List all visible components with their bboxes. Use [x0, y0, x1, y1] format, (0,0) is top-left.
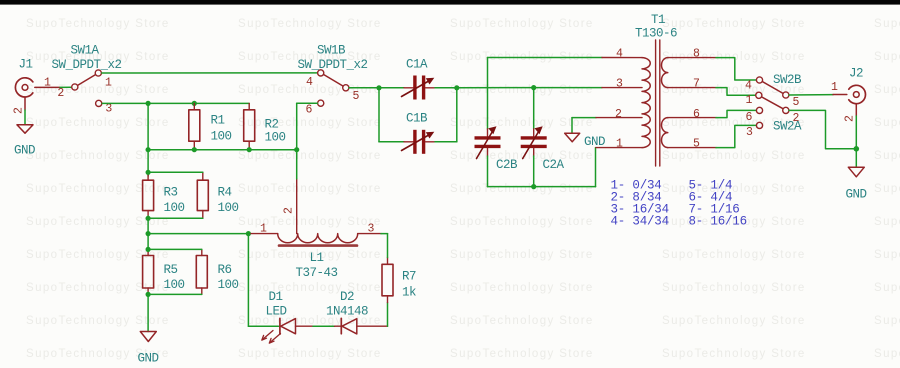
resistor R4: [197, 172, 238, 218]
node junction wireC-D branch: [246, 231, 251, 236]
capacitor C2B: [475, 126, 519, 172]
svg-text:100: 100: [164, 278, 185, 292]
T1 pin 6: [668, 108, 716, 121]
wire C2B vertical top: [487, 58, 489, 130]
svg-text:2: 2: [13, 107, 26, 114]
wire C: vertical to L1 pin1: [148, 233, 248, 235]
wire to D1 anode: [248, 325, 278, 327]
node junction wireB-R1: [192, 147, 197, 152]
svg-text:SupoTechnology Store: SupoTechnology Store: [662, 183, 806, 195]
svg-text:GND: GND: [584, 135, 605, 149]
node junction wireB-R2: [247, 147, 252, 152]
wire SW2A pin2 to ground rail: [789, 110, 856, 148]
svg-text:5: 5: [793, 96, 800, 109]
capacitor C1B: [379, 112, 435, 154]
svg-text:1N4148: 1N4148: [326, 305, 368, 319]
wire C1A to node right: [435, 87, 457, 89]
svg-text:1: 1: [260, 222, 267, 235]
svg-text:J2: J2: [849, 67, 863, 81]
svg-text:R6: R6: [218, 263, 232, 277]
svg-text:SupoTechnology Store: SupoTechnology Store: [450, 183, 594, 195]
ground GND middle: [565, 133, 605, 149]
svg-text:GND: GND: [138, 352, 159, 366]
svg-text:1: 1: [746, 94, 753, 107]
connector J1: [15, 58, 32, 98]
svg-text:T1: T1: [651, 13, 665, 27]
svg-text:SupoTechnology Store: SupoTechnology Store: [238, 150, 382, 162]
wire SW2B pin5 to J2: [789, 94, 833, 96]
svg-text:SupoTechnology Store: SupoTechnology Store: [238, 282, 382, 294]
svg-text:SupoTechnology Store: SupoTechnology Store: [450, 18, 594, 30]
wire left vertical lower to ground: [147, 293, 149, 332]
svg-text:SupoTechnology Store: SupoTechnology Store: [874, 18, 900, 30]
svg-text:1k: 1k: [402, 286, 416, 300]
wire SW1A pin1 to SW1B pin4: [102, 72, 317, 74]
wire C2A vertical bottom: [533, 156, 535, 187]
wire T1 pin8 to SW2B pin4: [716, 58, 756, 80]
node junction J2 ground: [854, 146, 860, 152]
svg-text:SupoTechnology Store: SupoTechnology Store: [450, 348, 594, 360]
wire left vertical middle: [147, 216, 149, 252]
svg-text:SW1A: SW1A: [71, 44, 100, 58]
top black bar: [0, 0, 900, 5]
svg-text:2: 2: [844, 115, 857, 122]
node junction wireB-L1 branch: [294, 147, 299, 152]
T1 pin 8: [668, 48, 716, 61]
node junction C1 right: [454, 85, 459, 90]
inductor L1: [251, 179, 381, 280]
svg-text:J1: J1: [19, 58, 33, 72]
node junction R3R4 top: [146, 170, 151, 175]
wire C1B left vertical: [378, 88, 380, 142]
switch SW2A: [756, 92, 802, 133]
wire A: SW1A pin3 to R1 R2 tops: [102, 102, 249, 104]
J2 pin 2: [844, 104, 857, 122]
wire C2B vertical bottom: [487, 156, 489, 187]
svg-text:4- 34/34: 4- 34/34: [611, 215, 669, 229]
node junction wireA-vertical: [146, 101, 151, 106]
svg-text:L1: L1: [310, 251, 324, 265]
wire J1 to SW1A: [60, 86, 71, 88]
wire C1 node to T1 pin3: [457, 87, 602, 89]
wire SW1B pin5 to C1: [349, 87, 379, 89]
wire bottom rail: [488, 148, 596, 187]
resistor R1: [189, 103, 232, 149]
svg-text:SupoTechnology Store: SupoTechnology Store: [238, 18, 382, 30]
svg-text:7: 7: [693, 78, 699, 91]
wire left vertical upper: [147, 103, 149, 176]
wire D branch vertical: [247, 234, 249, 327]
svg-text:1: 1: [44, 76, 51, 89]
svg-text:8- 16/16: 8- 16/16: [689, 215, 747, 229]
wire SW1B pin6 stub: [297, 103, 318, 150]
transformer T1: [635, 13, 677, 166]
svg-text:SupoTechnology Store: SupoTechnology Store: [874, 348, 900, 360]
svg-text:SupoTechnology Store: SupoTechnology Store: [450, 282, 594, 294]
wire J1 pin2 to ground: [24, 110, 26, 125]
svg-text:3: 3: [616, 78, 623, 91]
svg-text:R2: R2: [265, 118, 279, 132]
svg-text:SupoTechnology Store: SupoTechnology Store: [450, 84, 594, 96]
svg-text:C1B: C1B: [406, 112, 428, 126]
svg-text:R5: R5: [164, 263, 178, 277]
wire D1 to D2: [296, 325, 342, 327]
svg-text:R4: R4: [218, 186, 232, 200]
wire SW1B pin6 vertical to L1 pin2: [296, 150, 298, 179]
node junction C2A top: [531, 85, 536, 90]
wire R3 R4 bottoms: [148, 217, 203, 219]
svg-text:SupoTechnology Store: SupoTechnology Store: [662, 18, 806, 30]
node junction wireC-vertical: [146, 231, 151, 236]
svg-text:SupoTechnology Store: SupoTechnology Store: [662, 150, 806, 162]
resistor R6: [196, 249, 238, 294]
wire R5 R6 bottoms: [148, 293, 202, 295]
wire L1 pin3 to R7 top: [381, 234, 388, 258]
resistor R2: [244, 103, 286, 149]
svg-text:100: 100: [164, 201, 185, 215]
svg-text:SupoTechnology Store: SupoTechnology Store: [26, 183, 170, 195]
svg-text:SupoTechnology Store: SupoTechnology Store: [450, 150, 594, 162]
ground GND left: [138, 332, 159, 366]
connector J2: [849, 67, 866, 104]
node junction R3R4 bottom: [146, 216, 151, 221]
svg-text:R1: R1: [211, 114, 225, 128]
J2 pin 1: [831, 81, 847, 95]
svg-text:SupoTechnology Store: SupoTechnology Store: [874, 51, 900, 63]
T1 pin 3: [602, 78, 642, 91]
svg-text:5: 5: [353, 90, 360, 103]
T1 pin 7: [668, 78, 716, 91]
svg-text:1: 1: [831, 81, 838, 94]
node junction R5R6 top: [146, 247, 151, 252]
svg-text:4: 4: [616, 48, 623, 61]
svg-text:R3: R3: [164, 186, 178, 200]
wire T1 pin5 to SW2A pin3: [716, 125, 756, 147]
svg-text:SupoTechnology Store: SupoTechnology Store: [874, 249, 900, 261]
svg-text:3: 3: [368, 222, 375, 235]
note winding table: [611, 179, 747, 229]
J1 pin 1: [35, 76, 60, 89]
svg-text:SupoTechnology Store: SupoTechnology Store: [662, 315, 806, 327]
svg-text:SupoTechnology Store: SupoTechnology Store: [874, 84, 900, 96]
svg-text:1: 1: [616, 138, 623, 151]
svg-text:SupoTechnology Store: SupoTechnology Store: [874, 150, 900, 162]
ground GND at J2: [846, 167, 867, 201]
svg-text:2: 2: [615, 108, 622, 121]
svg-text:SupoTechnology Store: SupoTechnology Store: [450, 216, 594, 228]
capacitor C2A: [521, 126, 565, 172]
svg-text:100: 100: [265, 131, 286, 145]
svg-text:SupoTechnology Store: SupoTechnology Store: [662, 249, 806, 261]
switch SW1A: [52, 44, 122, 107]
wire R7 bottom vertical: [387, 303, 389, 327]
svg-text:LED: LED: [266, 305, 287, 319]
svg-text:SupoTechnology Store: SupoTechnology Store: [874, 216, 900, 228]
svg-text:100: 100: [218, 201, 239, 215]
svg-text:SW_DPDT_x2: SW_DPDT_x2: [298, 58, 368, 72]
svg-text:6: 6: [746, 111, 753, 124]
svg-text:C2B: C2B: [496, 158, 518, 172]
svg-text:SW1B: SW1B: [317, 44, 346, 58]
resistor R3: [143, 174, 185, 218]
switch SW1B: [298, 44, 368, 107]
svg-text:R7: R7: [402, 270, 416, 284]
capacitor C1A: [379, 57, 435, 99]
node junction C1 left: [376, 85, 381, 90]
J1 pin 2: [13, 97, 26, 114]
T1 pin 1: [596, 138, 642, 151]
resistor R7: [382, 258, 416, 303]
svg-text:2: 2: [57, 87, 64, 100]
svg-text:8: 8: [693, 48, 700, 61]
svg-text:3: 3: [105, 103, 112, 116]
svg-text:SupoTechnology Store: SupoTechnology Store: [238, 348, 382, 360]
wire J2 pin2 down: [855, 116, 857, 149]
diode D2 1N4148: [326, 290, 368, 334]
wire to GND J2: [855, 149, 857, 167]
wire C1B right vertical: [435, 88, 457, 142]
wire R3 R4 tops: [148, 171, 203, 173]
svg-text:SupoTechnology Store: SupoTechnology Store: [874, 183, 900, 195]
svg-text:C2A: C2A: [543, 158, 565, 172]
svg-text:SupoTechnology Store: SupoTechnology Store: [662, 348, 806, 360]
svg-text:GND: GND: [14, 144, 35, 158]
svg-text:SupoTechnology Store: SupoTechnology Store: [450, 249, 594, 261]
svg-text:D2: D2: [340, 290, 354, 304]
wire T1 pin6 to SW2B pin6: [716, 110, 756, 117]
switch SW2B: [756, 73, 802, 114]
svg-text:1: 1: [105, 77, 112, 90]
svg-text:5: 5: [693, 138, 700, 151]
diode D1 LED: [262, 290, 296, 343]
svg-text:SW2B: SW2B: [773, 73, 802, 87]
svg-text:SupoTechnology Store: SupoTechnology Store: [874, 282, 900, 294]
T1 pin 4: [602, 48, 642, 61]
svg-text:100: 100: [218, 278, 239, 292]
T1 pin 5: [668, 138, 716, 151]
wire top rail to T1 pin4: [488, 57, 603, 59]
svg-text:2: 2: [793, 112, 800, 125]
svg-text:4: 4: [745, 80, 752, 93]
wire C2A vertical top: [533, 88, 535, 129]
svg-text:SupoTechnology Store: SupoTechnology Store: [874, 315, 900, 327]
T1 pin 2: [596, 108, 642, 121]
svg-text:2: 2: [283, 207, 296, 214]
svg-text:SupoTechnology Store: SupoTechnology Store: [238, 117, 382, 129]
svg-text:4: 4: [306, 76, 313, 89]
svg-text:SupoTechnology Store: SupoTechnology Store: [450, 315, 594, 327]
svg-text:100: 100: [211, 130, 232, 144]
svg-text:6: 6: [306, 104, 313, 117]
svg-text:SW_DPDT_x2: SW_DPDT_x2: [52, 58, 122, 72]
node junction wireB-vertical: [146, 147, 151, 152]
svg-text:SupoTechnology Store: SupoTechnology Store: [238, 183, 382, 195]
svg-text:D1: D1: [269, 290, 283, 304]
svg-text:6: 6: [693, 108, 700, 121]
svg-text:3: 3: [746, 126, 753, 139]
wire B: R1 R2 bottoms: [148, 149, 297, 151]
svg-text:SupoTechnology Store: SupoTechnology Store: [662, 282, 806, 294]
svg-text:GND: GND: [846, 188, 867, 202]
wire T1 pin7 to SW2A pin1: [716, 88, 756, 96]
node junction wireA-R1: [192, 101, 197, 106]
node junction bottom rail C2A: [531, 184, 536, 189]
svg-text:SupoTechnology Store: SupoTechnology Store: [874, 117, 900, 129]
wire D2 cathode to R7 corner: [357, 325, 388, 327]
svg-text:T37-43: T37-43: [296, 266, 338, 280]
ground GND at J1: [14, 125, 35, 158]
wire GND to T1 pin2: [572, 118, 596, 133]
svg-text:T130-6: T130-6: [635, 27, 677, 41]
node junction R5R6 bottom: [146, 292, 151, 297]
wire R5 R6 tops: [148, 248, 202, 250]
svg-text:SupoTechnology Store: SupoTechnology Store: [26, 18, 170, 30]
resistor R5: [143, 249, 185, 294]
svg-text:C1A: C1A: [406, 57, 428, 71]
